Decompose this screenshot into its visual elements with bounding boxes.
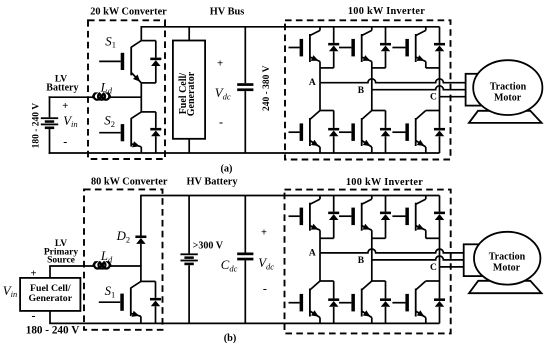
transistor S2 (a) <box>99 112 141 147</box>
motor terminal box (b) <box>464 244 487 276</box>
inverter (b) leg A top junction <box>320 237 334 239</box>
node C (a) <box>430 93 437 103</box>
inverter (a) leg A top diode <box>328 27 339 68</box>
label + Vdc (a) <box>217 59 223 70</box>
label S2 (a) <box>104 114 115 129</box>
svg-text:S1: S1 <box>105 284 116 299</box>
svg-text:Motor: Motor <box>494 92 522 103</box>
wire S1 emitter junction (a) <box>141 83 156 97</box>
node C (b) <box>430 263 437 273</box>
phase line A (b) <box>320 249 464 253</box>
svg-text:-: - <box>263 282 267 296</box>
label 100 kW Inverter (a) <box>348 6 425 17</box>
battery LV 180-240V <box>41 117 58 129</box>
label S1 (a) <box>105 34 116 49</box>
top rail (b) <box>141 195 440 197</box>
diode D2 (b) <box>135 195 146 266</box>
inverter (b) leg B phase wire <box>371 238 373 281</box>
inverter (b) leg B bottom junction <box>372 280 386 282</box>
label 80 kW Converter <box>91 177 168 188</box>
svg-text:D2: D2 <box>116 229 131 244</box>
svg-text:180 - 240 V: 180 - 240 V <box>26 324 80 336</box>
inverter (b) leg C bottom IGBT <box>392 281 425 323</box>
inverter (a) leg A phase wire <box>319 68 321 111</box>
inverter (a) leg A top IGBT <box>289 27 321 68</box>
svg-text:-: - <box>219 115 223 129</box>
inverter (a) leg C phase wire <box>439 68 441 111</box>
phase line B (a) <box>372 86 466 90</box>
label Ld (a) <box>100 80 113 95</box>
node B (b) <box>358 256 365 266</box>
inverter (b) leg C top junction <box>426 237 440 239</box>
label Vdc (b) <box>258 256 274 271</box>
svg-text:B: B <box>358 86 365 96</box>
inverter (a) leg B top diode <box>380 27 391 68</box>
inverter (a) leg B bottom IGBT <box>339 111 372 154</box>
wire HV battery top (b) <box>188 196 190 254</box>
svg-text:Vdc: Vdc <box>215 86 231 101</box>
svg-text:B: B <box>358 256 365 266</box>
svg-text:Ld: Ld <box>100 249 113 264</box>
motor terminal box (a) <box>466 74 489 106</box>
inverter (a) leg A bottom diode <box>328 111 339 154</box>
label 240 - 380 V (a) <box>262 65 272 111</box>
inverter (a) leg C bottom diode <box>434 111 445 154</box>
inverter (b) leg B top diode <box>380 196 391 239</box>
svg-text:C: C <box>430 263 437 273</box>
wire S1 collector (a) <box>141 26 156 41</box>
top rail HV bus (a) <box>141 26 439 28</box>
svg-text:180 - 240 V: 180 - 240 V <box>32 103 42 149</box>
converter dashed box (a) <box>88 20 165 159</box>
label (a) <box>220 163 232 174</box>
inverter (a) leg A top junction <box>320 67 334 69</box>
node A (b) <box>309 248 316 258</box>
label Vin (a) <box>63 114 77 129</box>
inverter dashed box (b) <box>285 190 451 334</box>
transistor S1 (a) <box>99 41 141 83</box>
label Traction Motor (b) <box>489 252 526 274</box>
svg-text:+: + <box>261 228 267 239</box>
svg-text:Vin: Vin <box>63 114 77 129</box>
inverter (a) leg A bottom junction <box>320 110 334 112</box>
svg-text:Ld: Ld <box>100 80 113 95</box>
wire S2 collector (a) <box>141 97 156 112</box>
svg-text:Motor: Motor <box>493 263 521 274</box>
wire fuel cell top (b) <box>49 266 51 278</box>
phase line A (a) <box>320 79 466 83</box>
bottom rail (b) <box>49 322 439 324</box>
svg-text:+: + <box>217 59 223 70</box>
label Fuel Cell/Generator (b) <box>29 283 73 304</box>
svg-text:HV Battery: HV Battery <box>187 177 239 188</box>
inverter (a) leg C top IGBT <box>392 27 425 68</box>
wire capacitor bottom (a) <box>244 91 246 153</box>
node B (a) <box>358 86 365 96</box>
transistor S1 (b) <box>99 281 141 317</box>
wire Cdc bottom (b) <box>244 260 246 323</box>
inverter (b) leg C bottom junction <box>426 280 440 282</box>
wire fuel cell bottom (b) <box>49 311 51 324</box>
motor base (a) <box>469 111 542 123</box>
svg-text:C: C <box>430 93 437 103</box>
svg-text:240 - 380 V: 240 - 380 V <box>262 65 272 111</box>
label Traction Motor (a) <box>490 81 527 103</box>
motor body (a) <box>473 60 542 115</box>
inverter (a) leg C top junction <box>426 67 440 69</box>
svg-text:20 kW Converter: 20 kW Converter <box>90 7 167 18</box>
wire battery bottom (a) <box>49 129 51 154</box>
label Cdc (b) <box>221 258 238 273</box>
svg-text:80 kW Converter: 80 kW Converter <box>91 177 168 188</box>
inverter (b) leg B bottom diode <box>380 281 391 323</box>
battery HV >300V (b) <box>180 253 197 265</box>
wire D2 to S1 (b) <box>141 265 156 281</box>
svg-text:100 kW Inverter: 100 kW Inverter <box>348 6 425 17</box>
svg-text:Generator: Generator <box>186 71 197 116</box>
label Vin (b) <box>3 284 17 299</box>
inductor Ld (a) <box>92 94 111 100</box>
label - Vdc (b) <box>263 282 267 296</box>
svg-text:Traction: Traction <box>490 81 527 92</box>
svg-text:Vdc: Vdc <box>258 256 274 271</box>
svg-text:100 kW Inverter: 100 kW Inverter <box>346 177 423 188</box>
motor body (b) <box>474 232 540 285</box>
label 20 kW Converter <box>90 7 167 18</box>
svg-text:A: A <box>309 78 316 88</box>
label LV Primary Source <box>44 239 79 266</box>
inverter (b) leg B top junction <box>372 237 386 239</box>
svg-text:HV Bus: HV Bus <box>210 7 244 18</box>
svg-text:Vin: Vin <box>3 284 17 299</box>
label + Vdc (b) <box>261 228 267 239</box>
wire S1 emitter (b) <box>140 316 142 323</box>
fuel cell box (b) <box>20 278 80 311</box>
inverter (b) leg A bottom junction <box>320 280 334 282</box>
bottom rail (a) <box>49 152 440 154</box>
label D2 (b) <box>116 229 131 244</box>
inverter (a) leg B top IGBT <box>339 27 372 68</box>
svg-text:S2: S2 <box>104 114 115 129</box>
label Vdc (a) <box>215 86 231 101</box>
svg-text:Generator: Generator <box>29 293 73 304</box>
label Fuel Cell/Generator (a) <box>178 71 197 116</box>
wire HV battery bottom (b) <box>188 265 190 323</box>
svg-text:Source: Source <box>47 256 75 266</box>
inverter (a) leg B bottom diode <box>380 111 391 154</box>
label + fuel cell (b) <box>31 268 37 279</box>
wire fuel cell bottom (a) <box>188 139 190 153</box>
phase line C (a) <box>440 96 466 98</box>
inverter (b) leg B top IGBT <box>339 196 372 239</box>
inverter (a) leg C bottom junction <box>426 110 440 112</box>
wire Cdc top (b) <box>244 196 246 253</box>
label HV Battery <box>187 177 239 188</box>
label - Vin (a) <box>63 135 67 149</box>
svg-text:(a): (a) <box>220 163 232 174</box>
capacitor Cdc (b) <box>237 253 253 261</box>
inverter (b) leg A top diode <box>328 196 339 239</box>
label 100 kW Inverter (b) <box>346 177 423 188</box>
svg-text:+: + <box>62 101 68 112</box>
inverter (b) leg C phase wire <box>439 238 441 281</box>
inverter (b) leg A phase wire <box>319 238 321 281</box>
diode S1 antiparallel (a) <box>150 41 161 83</box>
svg-text:S1: S1 <box>105 34 116 49</box>
label + Vin (a) <box>62 101 68 112</box>
label HV Bus <box>210 7 244 18</box>
wire capacitor top (a) <box>244 27 246 83</box>
label (b) <box>224 333 237 344</box>
inverter (b) leg A bottom IGBT <box>289 281 321 323</box>
inverter (b) leg B bottom IGBT <box>339 281 372 323</box>
svg-text:>300 V: >300 V <box>193 241 224 252</box>
label - fuel cell (b) <box>32 308 36 322</box>
converter dashed box (b) <box>84 189 163 329</box>
inverter (b) leg C top diode <box>434 196 445 239</box>
label Ld (b) <box>100 249 113 264</box>
inverter (a) leg B phase wire <box>371 68 373 111</box>
inductor Ld (b) <box>93 262 112 268</box>
inverter dashed box (a) <box>285 20 451 159</box>
wire S2 emitter (a) <box>140 147 142 153</box>
wire fuel cell top (a) <box>188 27 190 41</box>
svg-text:A: A <box>309 248 316 258</box>
capacitor Vdc (a) <box>237 83 253 91</box>
phase line C (b) <box>440 266 464 268</box>
phase line B (b) <box>372 256 464 260</box>
label - Vdc (a) <box>219 115 223 129</box>
svg-text:Cdc: Cdc <box>221 258 238 273</box>
wire source to converter (b) <box>49 265 141 267</box>
inverter (b) leg A top IGBT <box>289 196 321 239</box>
node A (a) <box>309 78 316 88</box>
svg-text:Traction: Traction <box>489 252 526 263</box>
motor base (b) <box>469 281 542 293</box>
fuel cell box (a) <box>173 41 205 139</box>
inverter (b) leg C bottom diode <box>434 281 445 323</box>
label 180 - 240 V (b) <box>26 324 80 336</box>
inverter (a) leg B bottom junction <box>372 110 386 112</box>
inverter (a) leg C bottom IGBT <box>392 111 425 154</box>
svg-text:-: - <box>63 135 67 149</box>
label 180 - 240 V (a) <box>32 103 42 149</box>
inverter (a) leg C top diode <box>434 27 445 68</box>
label LV Battery <box>46 75 78 94</box>
wire battery top (a) <box>49 96 142 117</box>
diode S2 antiparallel (a) <box>150 112 161 153</box>
diode S1 antiparallel (b) <box>150 281 161 323</box>
inverter (b) leg A bottom diode <box>328 281 339 323</box>
svg-text:(b): (b) <box>224 333 237 344</box>
inverter (a) leg B top junction <box>372 67 386 69</box>
inverter (b) leg C top IGBT <box>392 196 425 239</box>
inverter (a) leg A bottom IGBT <box>289 111 321 154</box>
label >300 V (b) <box>193 241 224 252</box>
label S1 (b) <box>105 284 116 299</box>
svg-text:Battery: Battery <box>46 82 78 93</box>
